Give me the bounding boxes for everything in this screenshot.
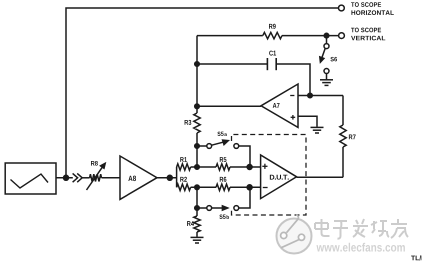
ground (S6) bbox=[320, 79, 333, 81]
wire: S5b tap to switch bbox=[197, 207, 207, 209]
wire: A7 inverting input to R7 column bbox=[298, 95, 343, 97]
resistor R6 bbox=[216, 184, 230, 190]
wire: R5 to D.U.T. + input bbox=[230, 166, 261, 168]
wire: node A to C1 left plate bbox=[197, 63, 267, 65]
wire: C1 right plate over and down to A7 inverting node bbox=[276, 64, 310, 96]
junction: A7 output tap bbox=[195, 104, 200, 109]
switch S6 bbox=[324, 44, 329, 49]
switch S5a bbox=[207, 144, 212, 149]
wire: A7 output to node A bbox=[197, 105, 261, 107]
op-amp A7 (output on left) bbox=[261, 84, 298, 127]
terminal TO SCOPE VERTICAL bbox=[339, 33, 345, 39]
wire: S5a to D.U.T. + node bbox=[239, 146, 250, 165]
switch S5b bbox=[207, 206, 212, 211]
wire: R1 to R5 bbox=[191, 166, 216, 168]
junction: S6 tap on vertical-scope line bbox=[324, 33, 329, 38]
wire: A8 output to R1/R2 fork bbox=[157, 177, 177, 179]
wire: node A vertical run (R9 branch down to R3 top) bbox=[196, 36, 198, 113]
wire: R9 to scope-vertical terminal bbox=[282, 35, 339, 37]
resistor R1 bbox=[177, 164, 191, 170]
wire: chevrons to R8 bbox=[82, 177, 89, 179]
ground (R4) bbox=[191, 236, 204, 238]
wire: down to R7 bbox=[342, 96, 344, 126]
op-amp D.U.T. bbox=[261, 155, 297, 199]
junction: C1 / A7- / R7 node bbox=[308, 93, 313, 98]
junction: D.U.T. + input node bbox=[247, 165, 252, 170]
wire: S5a tap to switch bbox=[197, 145, 207, 147]
wire: A7 non-inverting input to ground bbox=[298, 116, 317, 127]
wire: R6 to D.U.T. - input bbox=[230, 186, 261, 188]
junction: A8 output node bbox=[167, 175, 172, 180]
resistor R7 bbox=[340, 125, 346, 147]
wire: R3 bottom to R1/R5 node bbox=[196, 133, 198, 167]
junction: generator output / scope-horizontal node bbox=[64, 175, 69, 180]
junction: S5b tap bbox=[195, 206, 200, 211]
wire: generator output node up and across to scope-horizontal terminal bbox=[66, 8, 338, 178]
resistor R9 bbox=[263, 32, 282, 38]
resistor R3 bbox=[194, 113, 200, 133]
resistor R4 bbox=[194, 216, 200, 232]
junction: R2/R6 node bbox=[195, 185, 200, 190]
resistor R5 bbox=[216, 164, 230, 170]
resistor R2 bbox=[177, 184, 191, 190]
watermark: chinese caption (stroke approximation) bbox=[315, 219, 408, 239]
wire: R7 to D.U.T. output bbox=[342, 147, 344, 177]
variable resistor R8 bbox=[90, 174, 102, 181]
ground (A7 +) bbox=[311, 126, 324, 128]
amplifier A8 bbox=[120, 156, 157, 199]
wire: junction to switch S6 bbox=[326, 36, 328, 44]
wire: fork bar bbox=[176, 167, 178, 187]
wire: R2/R6 node down to R4 bbox=[196, 187, 198, 216]
junction: S5a tap bbox=[195, 144, 200, 149]
coax connector chevrons bbox=[73, 173, 78, 182]
figure reference TL/ bbox=[411, 255, 422, 260]
watermark: elecfans logo bbox=[277, 215, 312, 254]
wire: R2 to R6 bbox=[191, 186, 216, 188]
capacitor C1 bbox=[266, 58, 268, 70]
wire: R4 to ground bbox=[196, 232, 198, 237]
wire: R8 to A8 input bbox=[102, 177, 121, 179]
junction: D.U.T. - input node bbox=[247, 185, 252, 190]
junction: R1/R5 node bbox=[195, 165, 200, 170]
function generator (triangle-wave source) bbox=[5, 163, 56, 194]
watermark: www.elecfans.com bbox=[316, 243, 404, 252]
terminal TO SCOPE HORIZONTAL bbox=[339, 5, 345, 11]
D.U.T. guard shield (dashed box) bbox=[232, 135, 307, 216]
wire: D.U.T. output to R7 column bbox=[297, 176, 343, 178]
junction: C1 tap bbox=[195, 62, 200, 67]
wire: S6 to ground bbox=[326, 74, 328, 80]
wire: node A to R9 bbox=[197, 35, 263, 37]
wire: S5b to D.U.T. - node bbox=[239, 190, 250, 209]
wire: generator to node bbox=[56, 177, 73, 179]
